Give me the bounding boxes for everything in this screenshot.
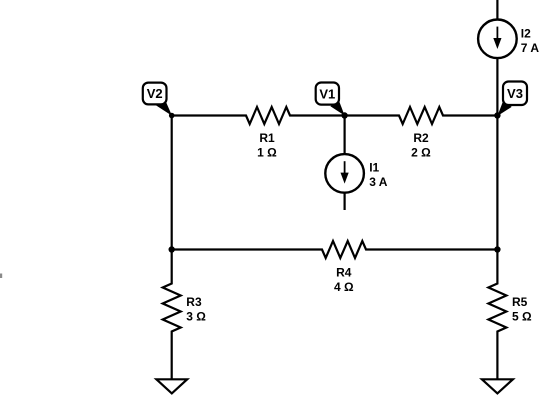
- svg-text:1 Ω: 1 Ω: [257, 146, 277, 160]
- svg-text:R1: R1: [259, 131, 275, 145]
- svg-text:R3: R3: [186, 295, 202, 309]
- svg-text:R5: R5: [512, 295, 528, 309]
- svg-text:5 Ω: 5 Ω: [512, 309, 532, 323]
- svg-text:4 Ω: 4 Ω: [334, 280, 354, 294]
- svg-text:7 A: 7 A: [521, 41, 540, 55]
- svg-text:R2: R2: [413, 131, 429, 145]
- svg-text:V3: V3: [507, 86, 523, 101]
- svg-text:3 A: 3 A: [369, 175, 388, 189]
- svg-text:3 Ω: 3 Ω: [186, 309, 206, 323]
- svg-text:R4: R4: [336, 265, 352, 279]
- svg-text:I1: I1: [369, 160, 379, 174]
- svg-text:V2: V2: [147, 86, 163, 101]
- svg-text:V1: V1: [319, 86, 335, 101]
- svg-text:2 Ω: 2 Ω: [411, 146, 431, 160]
- svg-text:I2: I2: [521, 26, 531, 40]
